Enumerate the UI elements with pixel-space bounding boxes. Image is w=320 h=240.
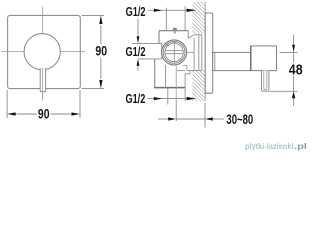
svg-text:30~80: 30~80 — [226, 112, 253, 127]
svg-text:G1/2: G1/2 — [126, 92, 146, 106]
svg-text:.pl: .pl — [294, 142, 307, 151]
svg-text:48: 48 — [289, 63, 303, 79]
svg-text:90: 90 — [38, 106, 50, 121]
svg-text:plytki-lazienki: plytki-lazienki — [245, 142, 294, 151]
svg-text:90: 90 — [95, 44, 107, 59]
svg-text:G1/2: G1/2 — [126, 45, 146, 59]
svg-text:G1/2: G1/2 — [126, 5, 146, 19]
